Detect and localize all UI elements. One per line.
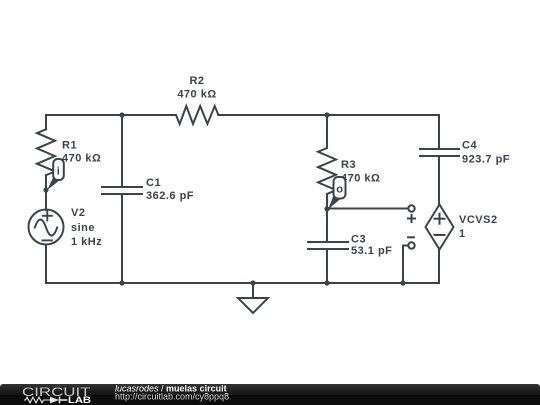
terminal minus xyxy=(408,242,414,248)
svg-text:C3: C3 xyxy=(351,233,366,245)
svg-text:R2: R2 xyxy=(189,75,204,87)
node C3 bottom xyxy=(324,280,329,285)
svg-text:53.1 pF: 53.1 pF xyxy=(351,245,392,257)
capacitor C4 xyxy=(420,149,459,156)
logo LAB xyxy=(68,394,91,405)
resistor R2 xyxy=(176,106,218,124)
label R3 xyxy=(341,159,380,185)
label VCVS2 xyxy=(459,214,498,240)
svg-text:sine: sine xyxy=(71,222,95,234)
node R1 bottom xyxy=(43,187,48,192)
svg-text:C4: C4 xyxy=(462,140,477,152)
label C4 xyxy=(462,140,510,166)
wire R3 branch xyxy=(326,115,328,283)
svg-text:C1: C1 xyxy=(146,177,161,189)
probe i on R1 xyxy=(47,159,64,190)
capacitor C3 xyxy=(308,242,348,249)
terminal plus xyxy=(408,205,414,211)
label V2 xyxy=(71,207,102,248)
wire node to V2 xyxy=(45,190,47,210)
label R2 xyxy=(177,75,216,100)
svg-text:470 kΩ: 470 kΩ xyxy=(177,88,216,100)
footer bar xyxy=(0,384,540,405)
footer credit line xyxy=(115,383,227,393)
label R1 xyxy=(62,139,101,164)
svg-text:R3: R3 xyxy=(341,159,356,171)
node top C1 xyxy=(119,112,124,117)
source V2 xyxy=(29,210,64,245)
label C3 xyxy=(351,233,392,257)
wire VCVS branch xyxy=(438,115,440,283)
label terminal plus sign xyxy=(407,214,416,223)
wire top rail xyxy=(46,115,439,129)
svg-text:R1: R1 xyxy=(62,139,77,151)
node ground xyxy=(250,280,255,285)
node terminal wire bottom xyxy=(400,280,405,285)
svg-text:362.6 pF: 362.6 pF xyxy=(146,190,194,202)
wire terminal minus to rail xyxy=(403,246,408,284)
footer url line xyxy=(115,392,229,402)
logo CIRCUIT xyxy=(22,385,91,399)
capacitor C1 xyxy=(102,187,142,194)
label terminal minus sign xyxy=(407,236,415,238)
svg-text:LAB: LAB xyxy=(68,394,91,405)
svg-text:VCVS2: VCVS2 xyxy=(459,214,498,226)
node C1 bottom xyxy=(119,280,124,285)
svg-text:1 kHz: 1 kHz xyxy=(71,236,102,248)
svg-text:470 kΩ: 470 kΩ xyxy=(341,173,380,185)
ground xyxy=(238,283,268,313)
wire bottom rail xyxy=(46,245,439,284)
node top R3 xyxy=(324,112,329,117)
wire output node xyxy=(327,208,408,210)
source VCVS2 xyxy=(426,205,454,250)
svg-text:V2: V2 xyxy=(71,207,85,219)
node R3 bottom xyxy=(324,206,329,211)
label C1 xyxy=(146,177,194,202)
svg-text:http://circuitlab.com/cy8ppq8: http://circuitlab.com/cy8ppq8 xyxy=(115,392,229,402)
logo waveform xyxy=(24,397,68,404)
resistor R3 xyxy=(318,148,336,194)
svg-text:o: o xyxy=(336,184,343,196)
resistor R1 xyxy=(37,129,55,190)
probe o on R3 xyxy=(328,177,346,210)
svg-text:923.7 pF: 923.7 pF xyxy=(462,154,510,166)
svg-text:470 kΩ: 470 kΩ xyxy=(62,152,101,164)
wire C1 branch xyxy=(121,115,123,283)
svg-text:i: i xyxy=(57,166,60,178)
svg-text:1: 1 xyxy=(459,228,466,240)
